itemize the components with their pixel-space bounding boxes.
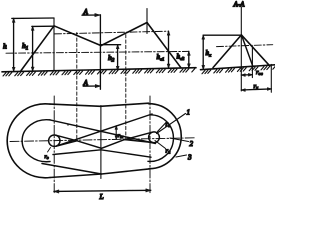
svg-text:rо: rо xyxy=(45,154,49,160)
svg-text:2: 2 xyxy=(190,140,194,148)
ground line (A-A) xyxy=(201,65,276,70)
wire ascent from valley to peak2 xyxy=(101,23,147,46)
plan horizontal centerline xyxy=(10,138,196,142)
outer contour bottom waist xyxy=(50,169,149,178)
outer contour right arc xyxy=(149,104,182,169)
inner slope line lower-left xyxy=(42,164,102,175)
center small dimension xyxy=(115,126,117,140)
projection dashed line left (crater toe) xyxy=(76,33,78,141)
leader 2 xyxy=(170,138,189,142)
middle contour right arc xyxy=(148,115,173,162)
apex extension line xyxy=(203,34,241,36)
dimension h_k xyxy=(202,35,204,69)
plan right cone axis xyxy=(149,96,151,194)
centerline extension below ground xyxy=(240,69,242,91)
plan central vertical xyxy=(100,106,102,179)
outer contour top waist xyxy=(50,103,149,106)
right crater circle xyxy=(149,132,160,143)
middle contour left arc xyxy=(22,120,50,162)
ground line (profile) xyxy=(2,68,196,72)
leader r_o xyxy=(48,148,51,153)
cone centerline xyxy=(240,7,242,69)
svg-text:A: A xyxy=(83,79,89,87)
ground hatching (profile) xyxy=(3,69,195,76)
dimension h_v1 xyxy=(168,31,170,68)
dimension L xyxy=(54,190,151,191)
wire descent right of peak2 xyxy=(147,23,181,68)
svg-text:h: h xyxy=(3,42,7,51)
left teardrop lower tangent xyxy=(56,141,77,147)
svg-text:h2: h2 xyxy=(108,53,115,64)
plan left cone axis xyxy=(53,96,55,194)
upper dash-dot datum line xyxy=(55,31,169,34)
outer contour left arc xyxy=(7,104,50,178)
dimension h2 xyxy=(117,45,119,71)
leader 3 xyxy=(176,155,187,157)
svg-text:L: L xyxy=(99,192,104,200)
lower tangent polyline xyxy=(53,150,151,157)
leader 1 xyxy=(157,114,186,134)
inner crater slope xyxy=(242,35,253,66)
wire mid extension line xyxy=(32,25,54,27)
svg-text:A: A xyxy=(83,8,89,16)
svg-text:rш: rш xyxy=(118,133,123,139)
wire valley extension line xyxy=(101,44,121,46)
svg-text:1: 1 xyxy=(187,109,191,117)
leader r_n xyxy=(155,141,166,149)
left crater circle xyxy=(49,135,60,146)
svg-text:rн: rн xyxy=(166,148,172,155)
section trace A vertical xyxy=(99,15,101,90)
wire peak2 axis xyxy=(146,9,148,34)
right teardrop upper tangent xyxy=(125,132,153,139)
speck xyxy=(67,124,68,125)
left teardrop upper tangent xyxy=(56,135,77,141)
svg-text:h1: h1 xyxy=(22,41,28,52)
dimension r_k xyxy=(241,89,271,90)
svg-text:hв1: hв1 xyxy=(157,53,165,62)
ground hatching (A-A) xyxy=(202,66,276,74)
crest tangent line descending xyxy=(50,120,156,144)
leader r_v xyxy=(158,123,167,132)
crest tangent line rising xyxy=(56,114,152,146)
lower dash-dot datum line xyxy=(6,51,189,53)
dimension h1 xyxy=(32,26,34,71)
crater toe extension vertical xyxy=(251,46,253,77)
wire peak1 axis xyxy=(53,18,55,70)
wire crest extension line xyxy=(12,17,54,19)
wire descent from peak1 to valley xyxy=(54,26,101,46)
wire left slope xyxy=(21,26,54,71)
section mark A top xyxy=(82,14,100,16)
dimension h (vertical with arrows) xyxy=(13,18,15,71)
saddle line between crater apexes xyxy=(77,140,125,149)
cone left slope xyxy=(213,35,241,68)
cone right slope xyxy=(241,35,269,66)
svg-text:hк: hк xyxy=(206,49,213,58)
dash-dot line in cone xyxy=(217,45,273,47)
svg-text:rов: rов xyxy=(256,69,263,76)
svg-text:3: 3 xyxy=(187,154,192,162)
dimension r_ov xyxy=(241,74,252,76)
right teardrop lower tangent xyxy=(125,140,153,143)
dimension h_v2 xyxy=(188,51,190,67)
section mark A bottom xyxy=(83,85,100,87)
svg-text:hв2: hв2 xyxy=(177,53,185,62)
svg-text:A-A: A-A xyxy=(233,1,246,9)
right toe extension vertical xyxy=(270,64,272,92)
projection dashed line right (crater toe) xyxy=(125,35,127,140)
